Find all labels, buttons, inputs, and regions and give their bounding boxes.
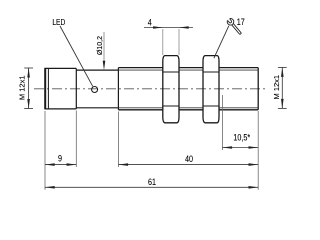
svg-text:LED: LED	[52, 17, 65, 27]
svg-text:61: 61	[148, 177, 156, 187]
svg-text:M 12x1: M 12x1	[272, 75, 281, 100]
svg-text:4: 4	[148, 18, 152, 28]
svg-text:Ø10,2: Ø10,2	[95, 36, 104, 55]
svg-text:M 12x1: M 12x1	[18, 75, 27, 100]
svg-text:9: 9	[58, 154, 62, 164]
svg-text:10,5*: 10,5*	[233, 133, 251, 143]
svg-text:40: 40	[185, 154, 193, 164]
svg-text:17: 17	[237, 17, 245, 27]
